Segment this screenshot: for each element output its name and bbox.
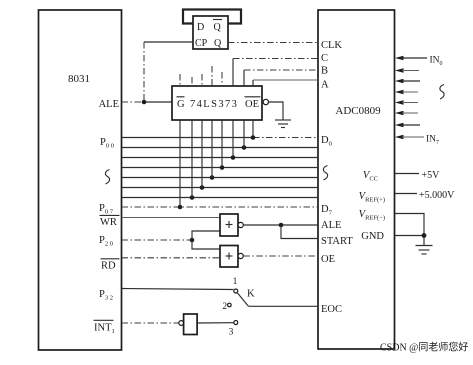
wire OE to ground <box>269 102 284 120</box>
wire address A net <box>253 80 318 86</box>
wire INT1 net <box>122 322 179 324</box>
wire latch input drop 1 <box>179 120 181 207</box>
svg-text:8031: 8031 <box>68 73 90 85</box>
svg-text:ALE: ALE <box>321 220 341 231</box>
analog input arrow IN7 <box>395 135 424 139</box>
wire ALE to CP riser <box>143 42 145 101</box>
wire address C net <box>233 59 318 87</box>
svg-text:+5V: +5V <box>422 170 441 181</box>
latch OE bubble <box>263 99 268 104</box>
analog input arrow 5 <box>395 100 418 104</box>
svg-text:ADC0809: ADC0809 <box>335 105 381 117</box>
analog input arrow 2 <box>395 68 419 72</box>
pin label INT1 (overbar) <box>94 320 115 335</box>
svg-text:CSDN @同老师您好: CSDN @同老师您好 <box>380 341 468 354</box>
continuation squiggle (ADC data lines) <box>323 166 327 181</box>
svg-text:Q: Q <box>214 38 222 49</box>
wire G1 output <box>243 224 318 226</box>
wire to START pin <box>281 225 318 239</box>
wire data bus line 4 <box>122 165 319 170</box>
latch U4 74LS373 <box>172 86 262 120</box>
gate G1 output bubble <box>238 222 243 227</box>
analog input arrow IN0 <box>395 56 427 60</box>
pin label RD (overbar) <box>101 259 120 272</box>
svg-text:GND: GND <box>361 231 384 242</box>
svg-text:START: START <box>321 236 353 247</box>
wire RD net <box>122 257 221 259</box>
svg-text:CP: CP <box>195 38 208 49</box>
wire Q output to CLK <box>228 42 318 44</box>
wire P2.0 net <box>122 239 193 241</box>
svg-text:G: G <box>177 99 185 110</box>
node START junction <box>279 223 284 228</box>
pin label WR (overbar) <box>100 215 120 228</box>
svg-text:74LS373: 74LS373 <box>190 99 238 110</box>
svg-text:EOC: EOC <box>321 304 342 315</box>
wire latch input drop 7 <box>243 120 245 148</box>
gate G2 output bubble <box>238 253 243 258</box>
wire P3.2 net <box>122 289 234 290</box>
wire GND pin <box>395 235 424 237</box>
wire data bus line 3 <box>122 155 319 160</box>
ground (ADC) <box>416 246 433 255</box>
latch unused output stubs <box>180 66 222 86</box>
wire G2 output to OE <box>243 255 318 257</box>
svg-text:K: K <box>247 289 255 300</box>
wire latch input drop 4 <box>211 120 213 178</box>
wire Qbar-to-D feedback loop <box>183 10 241 24</box>
wire address B net <box>244 70 318 86</box>
wire data bus line 2 <box>122 145 319 150</box>
svg-text:OE: OE <box>245 99 259 110</box>
gate G2 (read strobe, +) <box>220 246 238 268</box>
gate G1 (write strobe, +) <box>220 214 238 236</box>
svg-text:1: 1 <box>233 277 238 287</box>
wire VREF+ supply <box>395 193 417 195</box>
svg-text:D: D <box>197 22 204 33</box>
wire latch input drop 5 <box>221 120 223 168</box>
node P2.0 junction <box>190 238 195 243</box>
wire data bus line 5 <box>122 175 319 180</box>
svg-text:WR: WR <box>100 217 117 228</box>
wire VREF- to ground <box>395 214 424 236</box>
analog input arrow 7 <box>395 123 420 127</box>
wire latch input drop 2 <box>191 120 193 198</box>
D flip-flop U2 <box>193 16 228 49</box>
wire inverter to contact 3 <box>197 322 234 324</box>
continuation squiggle (8031 port lines) <box>105 170 109 185</box>
wire data bus line 6 <box>122 185 319 190</box>
wire data bus line P0.7-D7 <box>122 205 319 210</box>
svg-text:ALE: ALE <box>99 99 119 110</box>
node GND junction <box>422 233 427 238</box>
IC U1 8031 microcontroller <box>39 10 122 350</box>
svg-text:CLK: CLK <box>321 40 342 51</box>
continuation squiggle (analog inputs) <box>440 85 444 100</box>
wire data bus line 7 <box>122 195 319 200</box>
svg-text:RD: RD <box>101 261 116 272</box>
analog input arrow 6 <box>395 111 418 115</box>
wire WR net <box>122 217 221 219</box>
wire latch input drop 6 <box>232 120 234 158</box>
svg-text:+5.000V: +5.000V <box>419 190 455 201</box>
svg-text:C: C <box>321 53 328 64</box>
inverter N1 <box>184 314 198 335</box>
wire latch input drop 8 <box>252 120 254 138</box>
wire CP input <box>144 41 193 43</box>
wire latch input drop 3 <box>201 120 203 188</box>
svg-text:2: 2 <box>222 302 227 312</box>
node ALE junction <box>142 100 147 105</box>
analog input arrow 3 <box>395 79 420 83</box>
ground (latch OE) <box>275 120 291 128</box>
wire P2.0 riser to gates <box>192 231 220 249</box>
svg-text:Q: Q <box>214 22 222 33</box>
svg-text:OE: OE <box>321 254 335 265</box>
svg-text:3: 3 <box>229 328 234 338</box>
wire data bus line P0.0-D0 <box>122 135 319 140</box>
wire ground drop <box>423 236 425 246</box>
svg-text:A: A <box>321 80 329 91</box>
IC U3 ADC0809 <box>318 10 395 349</box>
analog input arrow 4 <box>395 90 418 94</box>
svg-text:B: B <box>321 66 328 77</box>
wire EOC net <box>248 305 318 307</box>
wire ALE net (8031 to 74LS373 G) <box>122 101 173 103</box>
switch K <box>222 277 255 338</box>
inverter N1 input bubble <box>179 321 184 326</box>
wire VCC supply <box>395 173 419 175</box>
